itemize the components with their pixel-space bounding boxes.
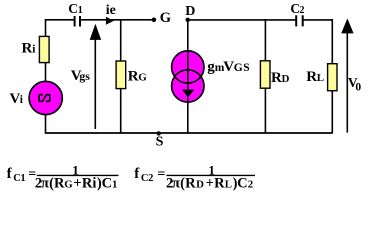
wire top-right rail from node D to C2 left plate: [188, 19, 296, 21]
svg-text:G: G: [160, 10, 171, 26]
source Vi (AC source circle): [29, 81, 62, 114]
svg-text:2: 2: [148, 173, 153, 184]
resistor Ri: [39, 36, 49, 62]
wire RD branch top: [264, 19, 266, 61]
wire RG branch top: [120, 19, 122, 61]
label Ri: [22, 40, 37, 56]
label D: [185, 4, 195, 19]
current arrow ie (arrowhead on gate wire): [106, 17, 114, 25]
wire left branch: top rail corner down to Ri: [45, 19, 47, 37]
label RL: [306, 69, 324, 85]
svg-text:D: D: [196, 178, 204, 190]
capacitor C2 plates: [296, 15, 303, 26]
svg-text:D: D: [185, 4, 195, 19]
svg-text:D: D: [282, 73, 290, 85]
svg-text:R: R: [82, 175, 93, 191]
output voltage arrow V0 (annotation, points up): [341, 18, 353, 132]
formula fC1 denominator 2pi(RG+Ri)C1: [35, 175, 118, 191]
wire Vi bottom to bottom rail corner: [45, 114, 47, 133]
wire C1 right plate to node G: [80, 19, 153, 21]
wire drain branch through source to bottom rail: [187, 20, 189, 133]
capacitor C1 plates: [75, 16, 80, 27]
arrowhead of gmVGS source (points down): [182, 90, 195, 98]
wire RD branch bottom: [264, 88, 266, 133]
wire top-left rail from left corner to C1 left plate: [46, 19, 75, 21]
svg-text:1: 1: [78, 5, 83, 16]
label G: [160, 10, 171, 26]
label gmVGS: [207, 59, 249, 75]
formula fC1 fraction bar: [37, 174, 119, 176]
svg-text:S: S: [243, 62, 249, 74]
svg-text:=: =: [157, 167, 165, 182]
svg-text:R: R: [214, 175, 225, 191]
svg-text:V: V: [223, 59, 234, 75]
formula fC2 denominator 2pi(RD+RL)C2: [166, 175, 253, 191]
svg-text:L: L: [225, 178, 232, 190]
svg-text:1: 1: [112, 178, 117, 190]
label C1: [68, 1, 83, 16]
resistor RL: [328, 64, 337, 91]
wire C2 right plate to RL corner: [303, 19, 332, 21]
wire Ri bottom to Vi source: [45, 63, 47, 82]
svg-text:gs: gs: [79, 69, 90, 83]
formula fC1 label: [7, 166, 37, 184]
formula fC2 label: [134, 166, 165, 184]
node S dot: [157, 131, 161, 135]
svg-text:G: G: [234, 62, 243, 74]
label Vgs: [71, 68, 90, 84]
svg-text:π: π: [172, 175, 180, 191]
label Vi: [10, 91, 24, 107]
label V0: [348, 75, 362, 94]
svg-text:R: R: [22, 40, 33, 56]
svg-text:π: π: [41, 175, 49, 191]
svg-text:+: +: [73, 175, 81, 191]
svg-text:C: C: [102, 175, 112, 191]
label S: [156, 135, 164, 150]
wire bottom rail: [45, 132, 333, 134]
label RD: [271, 70, 290, 86]
dependent current source gmVGS (two overlapping circles): [172, 51, 204, 102]
sine symbol inside Vi: [39, 95, 50, 102]
wire RL branch bottom: [331, 91, 333, 133]
label C2: [290, 1, 304, 16]
wire RG branch bottom: [120, 88, 122, 133]
svg-text:+: +: [206, 175, 214, 191]
node G dot: [152, 18, 157, 23]
svg-text:2: 2: [300, 5, 305, 16]
svg-text:0: 0: [355, 82, 361, 94]
svg-text:R: R: [306, 69, 317, 85]
svg-text:C: C: [68, 1, 78, 16]
svg-text:ie: ie: [106, 3, 116, 18]
label ie: [106, 3, 116, 18]
voltage arrow Vgs (annotation, points up): [90, 24, 102, 129]
resistor RD: [260, 61, 270, 88]
svg-text:2: 2: [248, 178, 253, 190]
svg-text:1: 1: [20, 173, 25, 184]
svg-text:L: L: [317, 72, 324, 84]
svg-text:G: G: [64, 178, 73, 190]
svg-text:R: R: [128, 68, 139, 84]
svg-text:R: R: [185, 175, 196, 191]
node D dot: [186, 18, 190, 22]
resistor RG: [116, 61, 126, 89]
label RG: [128, 68, 148, 84]
formula fC2 fraction bar: [166, 174, 255, 176]
svg-text:R: R: [271, 70, 282, 86]
wire RL branch top: [331, 19, 333, 64]
svg-text:S: S: [156, 135, 164, 150]
formula fC2 numerator 1: [208, 162, 215, 177]
svg-text:C: C: [237, 175, 247, 191]
svg-text:i: i: [92, 175, 96, 191]
formula fC1 numerator 1: [72, 162, 79, 177]
svg-text:G: G: [138, 71, 147, 83]
